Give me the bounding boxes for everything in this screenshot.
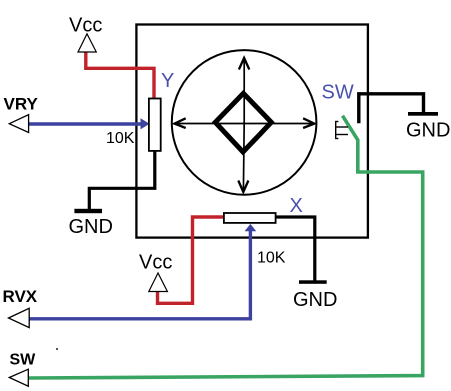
svg-text:Vcc: Vcc bbox=[139, 252, 172, 274]
svg-text:10K: 10K bbox=[257, 250, 286, 267]
svg-text:SW: SW bbox=[322, 82, 354, 104]
svg-text:Y: Y bbox=[161, 70, 174, 92]
svg-text:GND: GND bbox=[293, 289, 337, 311]
svg-text:SW: SW bbox=[10, 352, 37, 369]
svg-text:Vcc: Vcc bbox=[69, 15, 102, 37]
svg-text:10K: 10K bbox=[106, 130, 135, 147]
svg-text:GND: GND bbox=[406, 120, 450, 142]
svg-text:X: X bbox=[290, 195, 303, 217]
svg-text:VRY: VRY bbox=[4, 94, 39, 113]
svg-text:GND: GND bbox=[69, 216, 113, 238]
svg-text:RVX: RVX bbox=[3, 287, 38, 306]
